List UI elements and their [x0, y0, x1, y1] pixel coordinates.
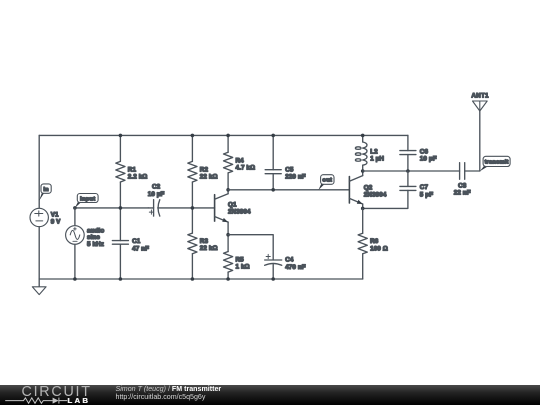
node top rail at R2: [191, 134, 195, 138]
svg-text:10 µF: 10 µF: [148, 191, 165, 198]
node Q2 emitter: [361, 207, 365, 211]
node input junction: [73, 206, 77, 210]
wire antenna down to tank row: [479, 111, 481, 171]
wire top supply rail: [39, 134, 408, 136]
svg-text:R3: R3: [200, 238, 209, 245]
node input row at R1/C1: [119, 206, 123, 210]
resistor R3: [191, 208, 193, 233]
footer bar: [0, 385, 540, 406]
svg-text:9 V: 9 V: [51, 219, 61, 226]
node bottom rail at audio source: [73, 277, 77, 281]
capacitor C2: [148, 207, 153, 209]
svg-text:C7: C7: [420, 184, 429, 191]
node bottom rail at C1: [119, 277, 123, 281]
CircuitLab logo wordmark: [22, 385, 92, 399]
ground: [38, 279, 40, 287]
svg-text:L2: L2: [370, 149, 378, 156]
svg-text:R5: R5: [236, 257, 245, 264]
svg-text:2N3904: 2N3904: [228, 209, 251, 216]
svg-text:out: out: [322, 178, 332, 184]
capacitor C7: [407, 171, 409, 186]
node tank row at C6/C7: [406, 169, 410, 173]
svg-text:Q2: Q2: [364, 185, 373, 192]
svg-text:1 kΩ: 1 kΩ: [236, 264, 250, 271]
antenna ANT1: [473, 101, 488, 111]
svg-text:470 nF: 470 nF: [285, 264, 306, 271]
capacitor C1: [119, 208, 121, 241]
svg-text:47 nF: 47 nF: [132, 245, 149, 252]
capacitor C8: [459, 163, 461, 180]
footer caption: [116, 385, 222, 394]
transistor Q2 2N3904: [348, 177, 350, 203]
svg-text:R1: R1: [128, 166, 137, 173]
svg-text:4.7 kΩ: 4.7 kΩ: [236, 164, 256, 171]
resistor R5: [227, 235, 229, 252]
node Q1 collector: [226, 188, 230, 192]
resistor R4: [227, 135, 229, 152]
node base row at R2/R3: [191, 206, 195, 210]
flag input: [75, 202, 81, 208]
svg-text:Q1: Q1: [228, 202, 237, 209]
wire audio source to bottom rail: [74, 244, 76, 279]
svg-text:22 kΩ: 22 kΩ: [200, 174, 218, 181]
capacitor C5: [272, 135, 274, 169]
node top rail at R4: [226, 134, 230, 138]
node top rail at R1: [119, 134, 123, 138]
svg-text:2N3904: 2N3904: [364, 192, 387, 199]
node bottom rail at R5: [226, 277, 230, 281]
capacitor C6: [407, 135, 409, 150]
svg-text:1 µH: 1 µH: [370, 156, 384, 163]
node Q2 collector / tank: [361, 169, 365, 173]
wire Q1 collector row to Q2 base: [228, 189, 349, 191]
svg-text:C8: C8: [458, 182, 467, 189]
capacitor C4: [265, 259, 282, 261]
svg-text:22 kΩ: 22 kΩ: [200, 245, 218, 252]
node Q1 emitter: [226, 233, 230, 237]
svg-text:R6: R6: [370, 238, 379, 245]
svg-text:C1: C1: [132, 238, 141, 245]
node bottom rail at C4: [271, 277, 275, 281]
svg-text:ANT1: ANT1: [471, 93, 489, 100]
CircuitLab logo doodle (resistor + diode): [0, 396, 110, 406]
wire tank row to C8: [363, 170, 460, 172]
voltage source V1: [30, 208, 48, 226]
source V2 audio sine: [66, 226, 85, 245]
svg-text:R2: R2: [200, 166, 209, 173]
wire V1 to bottom rail: [38, 227, 40, 279]
node top rail at C5: [271, 134, 275, 138]
svg-text:C6: C6: [420, 148, 429, 155]
resistor R1: [119, 135, 121, 161]
svg-text:C5: C5: [285, 167, 294, 174]
resistor R6: [362, 208, 364, 233]
svg-text:transmit: transmit: [485, 160, 509, 166]
resistor R2: [191, 135, 193, 161]
svg-text:100 Ω: 100 Ω: [370, 245, 388, 252]
flag in: [39, 193, 44, 201]
wire input row: [75, 207, 148, 209]
svg-text:V1: V1: [51, 212, 59, 219]
wire input node down to audio source: [74, 208, 76, 226]
svg-text:R4: R4: [236, 157, 245, 164]
node collector row at C5: [271, 188, 275, 192]
node bottom rail at R3: [191, 277, 195, 281]
flag transmit: [480, 166, 487, 171]
svg-text:5 pF: 5 pF: [420, 191, 433, 198]
svg-text:input: input: [80, 196, 95, 202]
wire bottom ground rail: [39, 278, 362, 280]
transistor Q1 2N3904: [214, 195, 216, 221]
wire Q1 emitter to C4: [228, 235, 273, 260]
svg-text:2.2 kΩ: 2.2 kΩ: [128, 174, 148, 181]
svg-text:C2: C2: [152, 184, 161, 191]
svg-text:220 nF: 220 nF: [285, 174, 306, 181]
inductor L2: [362, 135, 364, 142]
svg-text:in: in: [43, 187, 49, 193]
svg-text:5 kHz: 5 kHz: [87, 241, 104, 248]
svg-text:22 nF: 22 nF: [454, 189, 471, 196]
node top rail at L2: [361, 134, 365, 138]
flag out: [318, 184, 324, 190]
wire left rail down to V1: [38, 135, 40, 208]
svg-text:10 pF: 10 pF: [420, 156, 437, 163]
wire C2 to Q1 base: [158, 207, 215, 209]
svg-text:C4: C4: [285, 257, 294, 264]
wire C8 to antenna node: [465, 170, 480, 172]
